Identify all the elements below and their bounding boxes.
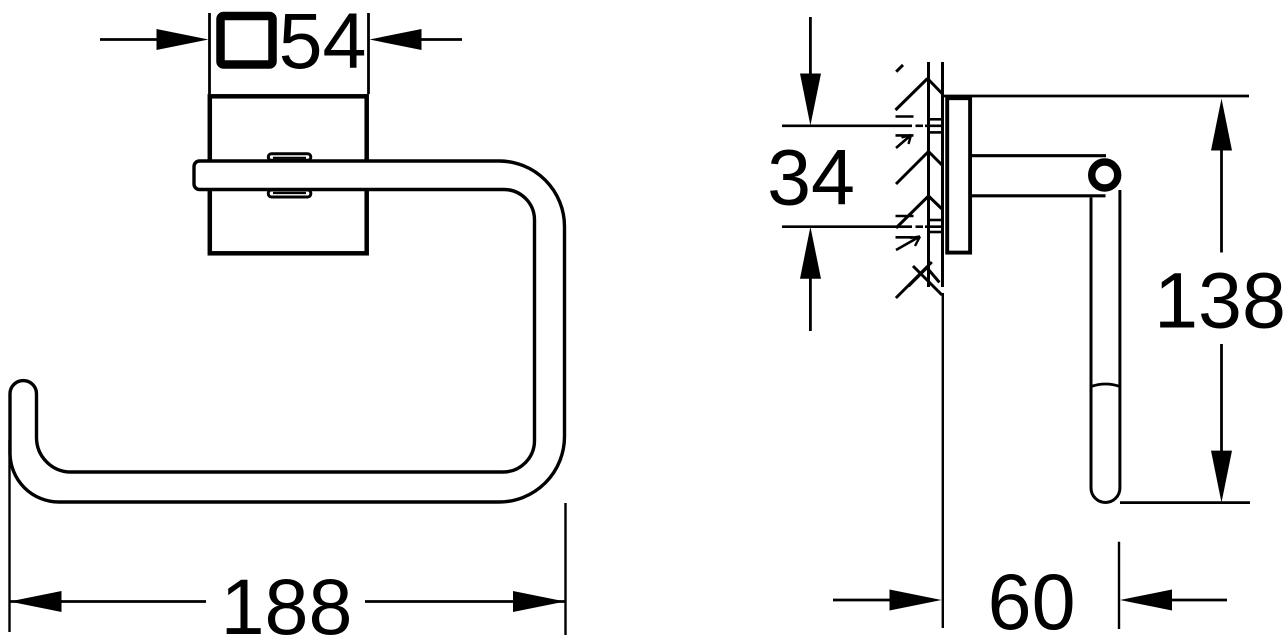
- dim 138 extension top: [943, 95, 1249, 98]
- bar side top line: [972, 154, 1106, 157]
- svg-text:54: 54: [279, 0, 367, 85]
- cross lines screw 1: [929, 118, 943, 121]
- screw hole 1: [782, 117, 943, 149]
- dim 54 square symbol: [221, 16, 273, 65]
- hatch bottom cross: [913, 266, 942, 295]
- dim 138 arrow top: [1211, 99, 1232, 151]
- bend circle side view: [1092, 162, 1118, 188]
- dim 188 arrow left: [10, 591, 62, 612]
- center line screw 2: [782, 225, 912, 228]
- collar tab bottom: [268, 190, 311, 197]
- dim 54 arrow right: [370, 29, 422, 50]
- wall hatching: [896, 65, 944, 298]
- hatch lambda 4: [908, 268, 927, 287]
- dim 60 leader right: [1171, 599, 1227, 602]
- dash below screw 2: [896, 236, 914, 239]
- dim 54 extension line right: [367, 13, 370, 94]
- collar tab top: [268, 154, 311, 161]
- dash above screw 2: [896, 215, 914, 218]
- dash above screw 1: [896, 115, 914, 118]
- dim 138 line bottom segment: [1220, 344, 1223, 452]
- dim 60 extension left: [942, 293, 944, 628]
- screw hole 2: [782, 216, 943, 250]
- wall line right: [941, 62, 944, 287]
- dim 138 line top segment: [1220, 149, 1223, 253]
- dim 188 extension line left: [8, 440, 10, 632]
- hatch lambda 1: [896, 79, 928, 111]
- dim 34 arrow top: [800, 74, 821, 126]
- dim 54 arrow left: [157, 29, 209, 50]
- bar side bottom line: [972, 194, 1106, 197]
- bar side view fill: [972, 157, 1098, 194]
- svg-text:60: 60: [988, 557, 1076, 643]
- joint line in vertical bar: [1091, 384, 1120, 387]
- dim 188 arrow right: [513, 591, 565, 612]
- collar tab bottom inner line: [273, 192, 306, 194]
- dim 60 extension right: [1118, 542, 1120, 629]
- dim 54 extension line left: [208, 13, 211, 94]
- center line screw 1: [782, 125, 912, 128]
- hatch lambda 2: [896, 152, 929, 185]
- wall plate side: [947, 98, 970, 252]
- dim 34 line top segment: [809, 17, 812, 76]
- dim 188 extension line right: [564, 503, 566, 635]
- dim 60 arrow left: [890, 590, 942, 611]
- hatch lambda 3: [896, 196, 929, 228]
- towel ring front: [10, 161, 565, 502]
- dim 54 leader line left: [100, 38, 158, 41]
- dim 54 leader line right: [420, 38, 462, 41]
- dash below screw 1: [896, 134, 914, 137]
- dim 188 line right segment: [365, 600, 565, 603]
- svg-text:34: 34: [767, 132, 855, 221]
- dim 34 arrow bottom: [800, 227, 821, 279]
- svg-text:188: 188: [221, 562, 353, 643]
- arrow mark below screw 2: [896, 236, 920, 250]
- wall plate front: [210, 96, 367, 253]
- dim 60 leader left: [833, 599, 891, 602]
- wall line left: [927, 62, 930, 287]
- vertical bar side view: [1091, 190, 1120, 502]
- svg-text:138: 138: [1154, 256, 1286, 345]
- cross lines screw 2: [929, 219, 943, 222]
- dim 188 line left segment: [10, 600, 207, 603]
- dim 138 arrow bottom: [1211, 451, 1232, 503]
- arrow mark below screw 1: [896, 135, 911, 148]
- hatch bottom long diagonal: [896, 262, 932, 298]
- dim 60 arrow right: [1120, 590, 1172, 611]
- dim 34 line bottom segment: [809, 277, 812, 331]
- collar tab top inner line: [273, 157, 306, 159]
- hatch tick top: [896, 65, 903, 72]
- dim 138 extension bottom: [1120, 501, 1250, 504]
